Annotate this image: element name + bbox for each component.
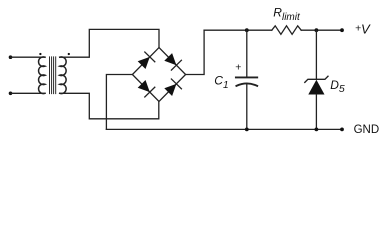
zener D5 triangle xyxy=(308,80,324,95)
input terminal dot top xyxy=(9,55,13,59)
wire: bottom input to primary xyxy=(11,92,45,94)
diode D3 (lower-left) xyxy=(138,80,150,92)
GND terminal dot xyxy=(340,127,344,131)
phase dot primary xyxy=(39,53,41,55)
wire: +V rail right segment xyxy=(301,29,342,31)
GND rail xyxy=(106,128,342,130)
svg-text:D5: D5 xyxy=(330,78,345,95)
diode D4 (lower-right) xyxy=(164,84,176,96)
transformer T1 primary winding xyxy=(39,57,45,94)
diode D2 (upper-right) xyxy=(164,53,176,65)
transformer core xyxy=(50,57,56,94)
zener D5 cathode bar with bent tips xyxy=(305,76,328,82)
input terminal dot bottom xyxy=(9,92,13,96)
wire: secondary top to bridge top corner xyxy=(60,29,159,57)
junction dot D5 top xyxy=(315,28,319,32)
capacitor C1 top lead xyxy=(246,30,248,76)
wire: bridge right corner riser to +V rail xyxy=(186,30,205,74)
diode D1 (upper-left) xyxy=(138,57,150,69)
wire: bridge left corner to ground rail xyxy=(106,75,132,130)
wire: top input to primary xyxy=(11,56,45,58)
junction dot C1 bottom xyxy=(245,127,249,131)
transformer T1 secondary winding xyxy=(60,57,66,94)
bridge diamond edges xyxy=(132,48,185,102)
svg-text:GND: GND xyxy=(354,124,380,136)
zener D5 bottom lead xyxy=(315,95,317,130)
capacitor C1 top plate xyxy=(236,76,257,78)
capacitor C1 bottom lead xyxy=(246,84,248,129)
svg-text:C1: C1 xyxy=(214,74,228,91)
wire: secondary bottom to bridge bottom corner xyxy=(60,93,159,119)
+V terminal dot xyxy=(340,28,344,32)
capacitor C1 curved plate xyxy=(236,83,257,85)
resistor Rlimit zigzag xyxy=(272,26,301,35)
svg-text:V: V xyxy=(361,21,371,36)
junction dot C1 top xyxy=(245,28,249,32)
wire: +V rail left segment xyxy=(204,29,272,31)
junction dot D5 bottom xyxy=(315,127,319,131)
phase dot secondary xyxy=(68,53,70,55)
svg-text:+: + xyxy=(235,61,241,73)
svg-text:Rlimit: Rlimit xyxy=(273,5,301,23)
zener diode D5 top lead xyxy=(315,30,317,79)
